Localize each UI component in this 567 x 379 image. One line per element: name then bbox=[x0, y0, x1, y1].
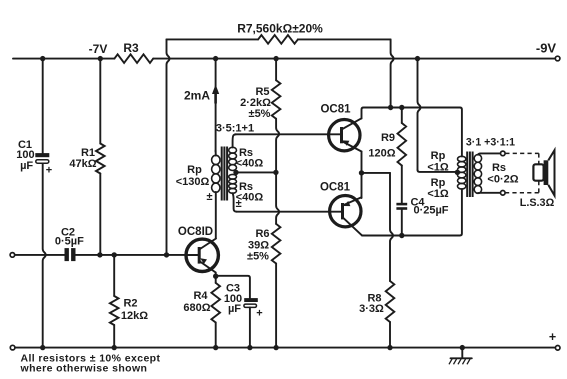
svg-text:12kΩ: 12kΩ bbox=[121, 310, 148, 322]
wire bottom positive rail bbox=[15, 347, 556, 349]
node bottom rail junction 5 bbox=[273, 345, 278, 350]
label T1 Rp value bbox=[176, 164, 210, 188]
node top rail junction 1 bbox=[40, 56, 45, 61]
node input line junction 1 bbox=[97, 252, 102, 257]
node top rail junction 3 bbox=[213, 56, 218, 61]
transformer T1 core bbox=[222, 147, 227, 201]
terminal -9V bbox=[555, 56, 560, 61]
svg-text:Rp: Rp bbox=[431, 150, 446, 162]
svg-text:-9V: -9V bbox=[536, 41, 557, 56]
svg-text:±5%: ±5% bbox=[247, 251, 269, 263]
svg-text:-7V: -7V bbox=[89, 42, 108, 56]
svg-text:Rp: Rp bbox=[187, 164, 202, 176]
svg-text:<40Ω: <40Ω bbox=[236, 158, 264, 170]
svg-text:where otherwise shown: where otherwise shown bbox=[20, 363, 148, 375]
svg-text:120Ω: 120Ω bbox=[368, 147, 395, 159]
svg-text:±5%: ±5% bbox=[249, 108, 271, 120]
svg-text:R7,560kΩ±20%: R7,560kΩ±20% bbox=[237, 22, 323, 36]
node bottom rail junction 2 bbox=[112, 345, 117, 350]
svg-text:OC8ID: OC8ID bbox=[178, 226, 213, 238]
label R4 value bbox=[183, 290, 210, 314]
resistor R8 bbox=[386, 173, 395, 348]
label OC81 upper bbox=[320, 104, 351, 116]
wire R7 left leg to driver base bbox=[167, 39, 170, 255]
node R5 R6 centre-tap junction bbox=[273, 170, 278, 175]
svg-text:0·25µF: 0·25µF bbox=[413, 205, 448, 217]
transformer T1 secondary lower bbox=[229, 174, 237, 211]
transistor OC81 lower bbox=[330, 196, 363, 236]
node bottom rail junction 1 bbox=[40, 345, 45, 350]
capacitor C2 bbox=[65, 248, 76, 261]
svg-text:2mA: 2mA bbox=[184, 89, 210, 103]
transistor OC81 upper bbox=[329, 118, 362, 151]
label R9 value bbox=[368, 132, 395, 159]
svg-text:R4: R4 bbox=[193, 290, 208, 302]
wire R7 right leg to output collector bbox=[391, 39, 394, 107]
node bottom rail junction 6 bbox=[387, 345, 392, 350]
resistor R5 bbox=[272, 59, 281, 173]
resistor R9 bbox=[397, 108, 406, 203]
transformer T2 primary upper bbox=[458, 156, 466, 172]
svg-text:R9: R9 bbox=[381, 132, 395, 144]
svg-text:<1Ω: <1Ω bbox=[427, 188, 449, 200]
label OC81D bbox=[178, 226, 213, 238]
label R7 value bbox=[237, 22, 323, 36]
svg-text:<130Ω: <130Ω bbox=[176, 176, 210, 188]
label + bbox=[549, 330, 556, 344]
svg-text:3·3Ω: 3·3Ω bbox=[359, 303, 384, 315]
resistor R2 bbox=[110, 255, 119, 348]
transformer T2 secondary bbox=[474, 153, 500, 193]
label 2mA bbox=[184, 89, 210, 103]
transformer T2 ratio label bbox=[466, 136, 515, 148]
svg-text:3·1 +3·1:1: 3·1 +3·1:1 bbox=[466, 136, 515, 148]
svg-text:±: ± bbox=[236, 198, 242, 210]
note all resistors bbox=[20, 353, 161, 375]
wire top supply rail (-9V line) bbox=[13, 58, 556, 60]
loudspeaker L.S. bbox=[533, 150, 554, 195]
transformer T1 secondary upper bbox=[229, 134, 237, 170]
label R2 value bbox=[121, 298, 148, 323]
capacitor C1 bbox=[35, 59, 49, 348]
svg-text:Rs: Rs bbox=[492, 162, 506, 174]
wire T2 centre tap feed bbox=[418, 59, 458, 172]
resistor R4 bbox=[211, 276, 220, 347]
transformer T2 primary lower bbox=[458, 172, 466, 189]
svg-text:L.S.3Ω: L.S.3Ω bbox=[520, 197, 555, 209]
node -7V label bbox=[89, 42, 108, 56]
node emitter junction bbox=[359, 170, 364, 175]
svg-text:3·5:1+1: 3·5:1+1 bbox=[216, 123, 254, 135]
label C2 value bbox=[55, 226, 84, 247]
svg-text:OC81: OC81 bbox=[320, 181, 351, 193]
wire T1 centre tap to R5/R6 bbox=[236, 171, 276, 173]
node top rail junction 2 bbox=[98, 56, 103, 61]
label T2 Rp upper bbox=[427, 150, 449, 173]
transformer T1 ratio label bbox=[216, 123, 254, 135]
label R8 value bbox=[359, 293, 384, 316]
svg-text:<0·2Ω: <0·2Ω bbox=[487, 173, 518, 185]
label R3 bbox=[123, 41, 139, 55]
wire base line upper OC81 bbox=[235, 133, 329, 135]
transformer T2 core bbox=[467, 152, 472, 198]
node R7 feedback junction bbox=[388, 105, 393, 110]
capacitor C3 bbox=[216, 276, 258, 348]
svg-text:680Ω: 680Ω bbox=[183, 302, 210, 314]
polarity mark T1 secondary bbox=[236, 198, 242, 210]
node input line junction 2 bbox=[112, 252, 117, 257]
node T1 centre tap bbox=[233, 170, 238, 175]
label L.S. 3 ohm bbox=[520, 197, 555, 209]
wire input line bbox=[15, 254, 186, 256]
label T1 Rs upper bbox=[236, 147, 264, 170]
resistor R3 bbox=[114, 54, 153, 63]
svg-text:±: ± bbox=[206, 191, 212, 203]
current arrow 2mA bbox=[212, 85, 219, 104]
label C4 value bbox=[410, 197, 448, 217]
resistor R7 bbox=[258, 35, 298, 44]
node bottom rail junction 4 bbox=[247, 345, 252, 350]
resistor R6 bbox=[272, 172, 281, 347]
polarity mark T1 primary bbox=[206, 191, 212, 203]
label R1 value bbox=[69, 147, 96, 170]
node top rail junction 4 bbox=[273, 56, 278, 61]
svg-text:R6: R6 bbox=[255, 228, 269, 240]
node R9 top junction bbox=[399, 105, 404, 110]
terminal speaker upper bbox=[501, 151, 506, 156]
wire lower collector line bbox=[362, 189, 462, 236]
wire common emitter line bbox=[362, 152, 391, 199]
node input line junction 3 bbox=[164, 252, 169, 257]
svg-text:OC81: OC81 bbox=[320, 104, 351, 116]
label C3 value bbox=[224, 283, 263, 320]
svg-text:µF: µF bbox=[20, 160, 33, 172]
terminal + bottom right bbox=[555, 346, 560, 351]
svg-text:R2: R2 bbox=[123, 298, 137, 310]
svg-text:0·5µF: 0·5µF bbox=[55, 235, 84, 247]
svg-text:<1Ω: <1Ω bbox=[427, 161, 449, 173]
node C4 bottom junction bbox=[399, 233, 404, 238]
label OC81 lower bbox=[320, 181, 351, 193]
terminal input signal bbox=[10, 253, 15, 258]
terminal bottom left bbox=[10, 345, 15, 350]
label C1 value bbox=[16, 139, 52, 177]
wire T1 primary feed bbox=[215, 59, 217, 152]
svg-text:R3: R3 bbox=[123, 41, 139, 55]
node bottom rail junction 3 bbox=[213, 345, 218, 350]
svg-text:Rp: Rp bbox=[431, 177, 446, 189]
terminal speaker lower bbox=[501, 191, 506, 196]
label -9V bbox=[536, 41, 557, 56]
ground bbox=[449, 348, 472, 365]
svg-text:47kΩ: 47kΩ bbox=[69, 158, 96, 170]
wire base line lower OC81 bbox=[237, 211, 330, 213]
resistor R1 bbox=[96, 59, 105, 255]
svg-text:+: + bbox=[549, 330, 556, 344]
transistor OC81D bbox=[186, 239, 219, 277]
label T2 Rp lower bbox=[427, 177, 449, 200]
node OC81D emitter junction bbox=[213, 274, 218, 279]
wire dashed speaker leads bbox=[505, 153, 539, 192]
label T2 Rs value bbox=[487, 162, 518, 185]
label T1 Rs lower bbox=[236, 181, 264, 204]
wire R7 feedback top bbox=[166, 38, 390, 40]
transformer T1 primary winding bbox=[212, 151, 220, 238]
svg-text:µF: µF bbox=[228, 303, 241, 315]
svg-text:+: + bbox=[46, 165, 52, 177]
label R6 value bbox=[247, 228, 270, 263]
capacitor C4 bbox=[396, 203, 407, 236]
label R5 value bbox=[240, 86, 271, 120]
node bottom rail junction 7 bbox=[460, 345, 465, 350]
svg-text:+: + bbox=[256, 308, 262, 320]
node T2 centre tap bbox=[455, 170, 460, 175]
wire upper collector line bbox=[362, 108, 462, 157]
node top rail junction 5 bbox=[415, 56, 420, 61]
